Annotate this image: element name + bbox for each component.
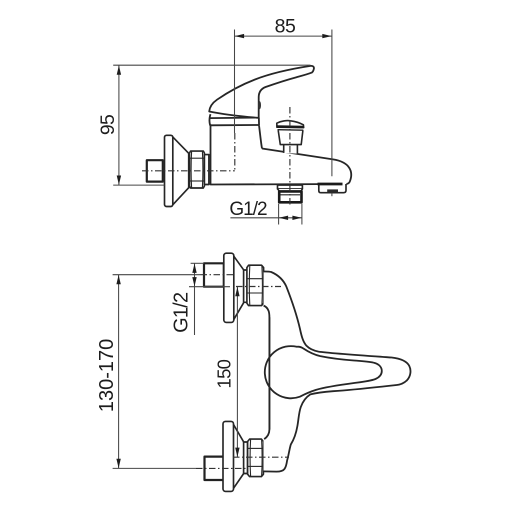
svg-text:G1/2: G1/2	[229, 199, 267, 220]
svg-text:85: 85	[275, 16, 296, 38]
svg-text:150: 150	[213, 359, 234, 388]
svg-text:G1/2: G1/2	[171, 292, 193, 333]
svg-text:130-170: 130-170	[96, 339, 118, 412]
svg-text:95: 95	[97, 114, 119, 135]
